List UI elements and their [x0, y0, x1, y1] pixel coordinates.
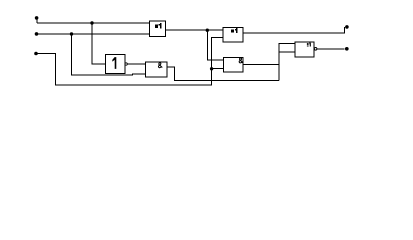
NOT gate U3 box — [106, 55, 125, 74]
OR gate U6 box — [295, 42, 314, 57]
NOT gate U3 bubble — [125, 63, 127, 65]
wire AND1 output down and right — [167, 67, 279, 81]
node J2 on XOR1 output — [206, 29, 209, 32]
node J3 on C vertical — [210, 67, 213, 70]
wire JB down, under NOT, jog up to AND1 in2 — [72, 34, 146, 75]
output dot 2 — [345, 47, 349, 51]
OR gate U6 bubble — [314, 48, 317, 51]
label >=1 of OR U6 — [307, 43, 310, 47]
label =1 of XOR U2 — [231, 28, 238, 33]
wire XOR1 output to XOR2 in1 — [165, 29, 223, 31]
wire XOR2 output to output1 — [243, 27, 345, 33]
wire C down along bottom and up to XOR2 in2 — [36, 38, 223, 85]
wire J3 to AND2 in2 — [212, 68, 224, 70]
wire J1 down to NOT input — [92, 23, 106, 64]
input A dot — [35, 16, 39, 20]
label 1 of NOT U3 — [112, 57, 116, 69]
wire row2 B to XOR1 in2 — [37, 33, 150, 35]
wire vertical up to OR in1 — [279, 43, 295, 80]
wire branch to OR in2 — [279, 51, 295, 53]
label & of AND U4 — [158, 63, 162, 68]
wire OR output to output2 — [317, 48, 345, 50]
node J1 on row1 — [90, 21, 93, 24]
input B dot — [35, 32, 39, 36]
wire NOT output to AND1 in1 — [127, 63, 145, 65]
wire row1 A to XOR1 in1 — [37, 22, 149, 24]
node JB on row2 — [70, 32, 73, 35]
label =1 of XOR U1 — [155, 23, 161, 29]
AND gate U4 box — [145, 62, 167, 77]
output dot 1 — [345, 25, 349, 29]
wire AND2 output to vertical — [243, 63, 279, 65]
AND gate U5 box — [223, 58, 243, 73]
input C dot — [34, 52, 38, 56]
label & of AND U5 — [239, 58, 243, 63]
wire J2 down to AND2 in1 — [207, 30, 223, 60]
XOR gate U1 box — [149, 21, 165, 36]
XOR gate U2 box — [223, 28, 243, 42]
wire A stub down — [36, 19, 38, 23]
